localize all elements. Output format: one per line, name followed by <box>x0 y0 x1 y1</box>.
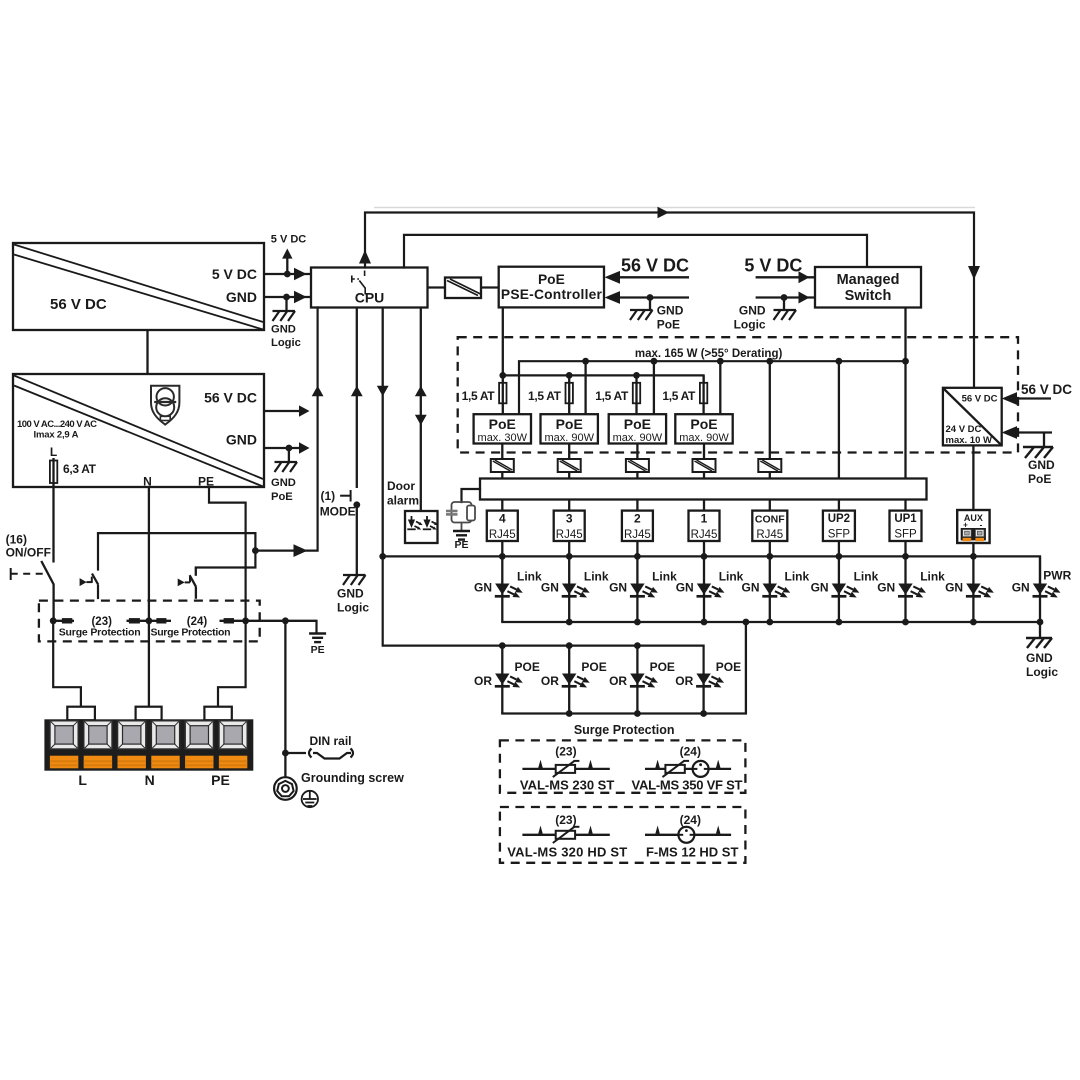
svg-text:Door: Door <box>387 479 415 493</box>
wire 5V stub up <box>286 257 288 274</box>
svg-text:Link: Link <box>584 570 609 584</box>
wire AUX to bus <box>972 543 974 556</box>
wire GND PoE into DC/DC <box>1016 431 1052 433</box>
LED POE2 <box>609 646 675 714</box>
surge bus line segments <box>53 620 74 622</box>
node B3 <box>633 372 640 379</box>
svg-text:PoE: PoE <box>624 416 651 432</box>
wire bar-RJ45#4 <box>501 500 503 511</box>
svg-text:GND: GND <box>271 324 296 336</box>
PoE module 2 (max.90W) <box>541 414 598 443</box>
svg-text:PoE: PoE <box>657 318 680 332</box>
svg-text:Logic: Logic <box>1026 665 1058 679</box>
svg-text:GN: GN <box>742 581 760 595</box>
svg-text:GN: GN <box>541 581 559 595</box>
svg-text:POE: POE <box>650 660 675 674</box>
svg-text:ON/OFF: ON/OFF <box>6 546 51 560</box>
svg-text:VAL-MS 230 ST: VAL-MS 230 ST <box>520 778 614 793</box>
svg-text:F-MS 12 HD ST: F-MS 12 HD ST <box>646 845 739 860</box>
svg-text:POE: POE <box>716 660 741 674</box>
svg-text:56 V DC: 56 V DC <box>1021 382 1072 397</box>
svg-text:2: 2 <box>634 512 641 526</box>
node A5 <box>766 358 773 365</box>
svg-text:56 V DC: 56 V DC <box>204 390 257 406</box>
svg-text:Link: Link <box>719 570 744 584</box>
fuse F2 1,5AT <box>502 375 504 414</box>
svg-text:UP2: UP2 <box>828 513 850 525</box>
wire UP1 <box>904 361 906 478</box>
node M7 <box>836 619 843 626</box>
node PE-surge <box>242 617 249 624</box>
wire GND to CPU <box>264 296 311 298</box>
wire MODE to gnd <box>356 505 358 575</box>
svg-text:Logic: Logic <box>271 337 301 349</box>
svg-text:Link: Link <box>652 570 677 584</box>
svg-text:(16): (16) <box>6 533 27 547</box>
svg-text:CPU: CPU <box>355 290 385 306</box>
svg-text:GND: GND <box>1028 458 1055 472</box>
power supply PS1 box <box>13 243 264 330</box>
svg-text:N: N <box>145 772 155 788</box>
POE top bus <box>502 646 703 674</box>
node L7 <box>902 553 909 560</box>
Link LED top bus <box>383 556 1040 583</box>
svg-text:Link: Link <box>920 570 945 584</box>
switch S1 ON/OFF blade <box>41 561 53 584</box>
wire PoE4 right <box>719 361 721 414</box>
wire bar-CONF <box>769 500 771 511</box>
svg-text:max. 10 W: max. 10 W <box>946 435 992 446</box>
wire CPU to isolator <box>428 286 446 288</box>
Managed Switch box U4 <box>815 267 921 308</box>
svg-text:GND: GND <box>337 587 364 601</box>
svg-text:SFP: SFP <box>828 529 851 541</box>
node interlock <box>252 547 259 554</box>
svg-text:GN: GN <box>676 581 694 595</box>
svg-text:POE: POE <box>581 660 606 674</box>
node M4 <box>701 619 708 626</box>
LED Link3 <box>541 556 609 622</box>
svg-text:Switch: Switch <box>845 288 892 304</box>
svg-text:GN: GN <box>811 581 829 595</box>
svg-text:Imax 2,9 A: Imax 2,9 A <box>34 430 79 441</box>
svg-text:L: L <box>50 445 57 459</box>
svg-text:RJ45: RJ45 <box>756 529 783 541</box>
wire GND PoE stub <box>288 448 290 462</box>
node M3 <box>634 619 641 626</box>
PS2 transformer icon <box>151 386 179 425</box>
node GND tap <box>283 294 290 301</box>
wire 5V into MS <box>756 276 815 278</box>
wire trunk1 to ON/OFF sense <box>255 308 317 551</box>
svg-text:PSE-Controller: PSE-Controller <box>501 287 603 302</box>
svg-text:alarm: alarm <box>387 494 419 508</box>
node bus-start <box>379 553 386 560</box>
PoE module 4 (max.90W) <box>675 414 732 443</box>
svg-text:GN: GN <box>877 581 895 595</box>
svg-text:PE: PE <box>198 475 214 489</box>
svg-text:N: N <box>143 475 152 489</box>
node GND Logic tap <box>781 294 788 301</box>
svg-text:OR: OR <box>675 674 693 688</box>
node P2 <box>566 642 573 649</box>
svg-text:PE: PE <box>211 772 230 788</box>
wire bar-RJ45#2 <box>636 500 638 511</box>
svg-text:5 V DC: 5 V DC <box>271 234 307 246</box>
node GND PoE tap <box>286 445 293 452</box>
breaker B1 (N) <box>80 533 99 599</box>
svg-text:Surge Protection: Surge Protection <box>151 626 231 638</box>
transformer T3 <box>626 459 649 472</box>
wire PS1-PS2 connector <box>146 330 148 374</box>
svg-text:100 V AC...240 V AC: 100 V AC...240 V AC <box>17 419 97 430</box>
node Q2 <box>566 710 573 717</box>
svg-text:(1): (1) <box>321 489 336 503</box>
wire PE to tab <box>218 621 246 707</box>
svg-text:MODE: MODE <box>320 505 356 519</box>
svg-text:(24): (24) <box>680 813 701 827</box>
LED POE4 <box>474 646 540 714</box>
wire L from PS2 <box>52 487 54 563</box>
RC network to PE <box>446 502 475 530</box>
svg-text:max. 30W: max. 30W <box>478 432 528 444</box>
wire GND stub down <box>285 297 287 311</box>
svg-text:OR: OR <box>474 674 492 688</box>
wire 5V to CPU <box>264 273 311 275</box>
wire 56V into PSE <box>619 276 689 278</box>
svg-text:Link: Link <box>785 570 810 584</box>
varistor blocks <box>62 618 72 623</box>
svg-text:1,5 AT: 1,5 AT <box>662 389 696 403</box>
svg-text:PE: PE <box>311 644 325 656</box>
transformer T4 <box>693 459 716 472</box>
wire PoE3 to iso <box>636 444 638 460</box>
LED PWR <box>1012 556 1072 622</box>
power supply PS2 box <box>13 374 264 487</box>
legend box 2 <box>500 807 746 863</box>
terminal body <box>44 719 253 770</box>
svg-text:DIN rail: DIN rail <box>310 734 352 748</box>
node Q4 <box>700 710 707 717</box>
node M5 <box>743 619 750 626</box>
LED LinkU2 <box>811 556 879 622</box>
svg-text:(24): (24) <box>680 745 701 759</box>
svg-text:3: 3 <box>566 512 573 526</box>
wire 56V into DC/DC <box>1016 397 1051 399</box>
wire trunk4 to door alarm <box>420 308 422 512</box>
tab L <box>67 707 95 721</box>
svg-text:SFP: SFP <box>894 529 917 541</box>
svg-text:GN: GN <box>609 581 627 595</box>
svg-text:GND: GND <box>739 304 766 318</box>
svg-text:Link: Link <box>854 570 879 584</box>
port CONF RJ45 <box>752 511 787 541</box>
node M6 <box>766 619 773 626</box>
wire trunk3 down <box>382 308 384 557</box>
node screw tap <box>282 617 289 624</box>
svg-text:max. 90W: max. 90W <box>613 432 663 444</box>
node L5 <box>766 553 773 560</box>
node P1 <box>499 642 506 649</box>
svg-text:PWR: PWR <box>1043 568 1071 582</box>
DIN rail symbol <box>309 749 353 759</box>
node P3 <box>634 642 641 649</box>
PoE module 1 (max.30W) <box>474 414 531 443</box>
node A3 <box>651 358 658 365</box>
CPU internal switch <box>352 271 366 295</box>
svg-text:RJ45: RJ45 <box>624 529 651 541</box>
svg-text:RJ45: RJ45 <box>489 529 516 541</box>
port 4 RJ45 <box>487 511 518 541</box>
svg-text:GN: GN <box>474 581 492 595</box>
breaker B2 (PE) <box>178 568 196 599</box>
svg-text:24 V DC: 24 V DC <box>946 424 982 435</box>
svg-text:max. 165 W (>55° Derating): max. 165 W (>55° Derating) <box>635 348 783 360</box>
PS1 diagonal band <box>14 245 263 323</box>
Link LED bottom bus <box>502 621 1040 623</box>
arrow down to DC/DC <box>968 266 980 280</box>
fuse F4 1,5AT <box>635 375 637 414</box>
node A4 <box>717 358 724 365</box>
wire 56V out arrow <box>264 410 300 412</box>
wire PE tap from bar <box>462 489 481 502</box>
svg-text:5 V DC: 5 V DC <box>212 266 257 282</box>
wire N down <box>148 487 150 707</box>
wire trunk to POE bus <box>383 556 503 645</box>
wire GND Logic into MS <box>756 296 815 298</box>
iso tails <box>501 472 503 479</box>
wire DIN <box>285 752 306 754</box>
tab N <box>136 707 162 721</box>
svg-text:GN: GN <box>1012 581 1030 595</box>
svg-text:L: L <box>78 772 87 788</box>
svg-text:Managed: Managed <box>837 272 900 288</box>
PoE module 3 (max.90W) <box>609 414 666 443</box>
node A6 <box>836 358 843 365</box>
wire link-bus to POE bus right <box>745 622 747 714</box>
node DIN <box>282 750 289 757</box>
LED Link4 <box>474 556 542 622</box>
node M2 <box>566 619 573 626</box>
tab PE <box>204 707 231 721</box>
node L2 <box>566 553 573 560</box>
svg-text:RJ45: RJ45 <box>556 529 583 541</box>
wire DC/DC to AUX <box>972 445 974 510</box>
LED Link2 <box>609 556 677 622</box>
svg-text:PoE: PoE <box>556 416 583 432</box>
svg-text:GN: GN <box>945 581 963 595</box>
wire bar-UP2 <box>838 500 840 511</box>
wire PoE2 right <box>584 361 586 414</box>
port 2 RJ45 <box>622 511 653 541</box>
transformer T1 <box>491 459 514 472</box>
LED LinkC <box>742 556 810 622</box>
svg-text:RJ45: RJ45 <box>691 529 718 541</box>
arrow on sense wire <box>294 544 308 557</box>
svg-text:Logic: Logic <box>734 318 766 332</box>
isolator U2 <box>445 278 481 299</box>
LED AUX <box>945 556 994 622</box>
door alarm LEDs <box>407 516 438 530</box>
wire bar-UP1 <box>904 500 906 511</box>
ground GND PoE (PSE) <box>630 310 653 320</box>
svg-text:1: 1 <box>701 512 708 526</box>
node L4 <box>701 553 708 560</box>
port 1 RJ45 <box>689 511 720 541</box>
earth ground PE (bar) <box>453 531 470 540</box>
transformer T5 <box>758 459 781 472</box>
ground GND Logic (PS1) <box>273 311 296 321</box>
svg-text:max. 90W: max. 90W <box>544 432 594 444</box>
node M8 <box>902 619 909 626</box>
wire PoE2 to iso <box>568 444 570 460</box>
wire MS down to port bus <box>904 308 906 362</box>
svg-text:1,5 AT: 1,5 AT <box>462 389 496 403</box>
node B2 <box>566 372 573 379</box>
svg-text:VAL-MS 320 HD ST: VAL-MS 320 HD ST <box>507 845 627 860</box>
wire bar-RJ45#3 <box>568 500 570 511</box>
legend box 1 <box>500 740 746 792</box>
node L1 <box>499 553 506 560</box>
ground GND PoE (PS2) <box>275 462 298 472</box>
svg-text:UP1: UP1 <box>894 513 917 525</box>
node L6 <box>836 553 843 560</box>
svg-text:(23): (23) <box>555 745 576 759</box>
transformer T2 <box>558 459 581 472</box>
node A7 <box>902 358 909 365</box>
svg-text:56 V DC: 56 V DC <box>962 394 998 405</box>
earth-in-circle icon <box>302 791 318 807</box>
svg-text:GND: GND <box>657 304 684 318</box>
node B1 <box>499 372 506 379</box>
door alarm box <box>405 511 438 543</box>
node L-surge <box>50 617 57 624</box>
wire isolator to PSE <box>481 286 499 288</box>
svg-text:Surge Protection: Surge Protection <box>59 626 141 638</box>
ground GND PoE (DC/DC) <box>1023 447 1053 458</box>
node N-surge <box>146 617 153 624</box>
wire PSE down to fuse bus <box>502 307 504 375</box>
svg-text:5 V DC: 5 V DC <box>744 256 802 276</box>
node MODE <box>353 501 360 508</box>
svg-text:PoE: PoE <box>690 416 717 432</box>
bus line A (return) <box>519 361 906 414</box>
DC/DC box U5 <box>943 388 1002 446</box>
wire GND stub down <box>1043 433 1045 447</box>
svg-text:Grounding screw: Grounding screw <box>301 771 404 785</box>
fuse F5 1,5AT <box>702 375 704 414</box>
PSE controller box U3 <box>499 267 604 308</box>
arrow on top rail <box>658 207 670 219</box>
node 5V tap <box>284 271 291 278</box>
svg-text:GND: GND <box>226 432 257 448</box>
svg-text:GND: GND <box>226 289 257 305</box>
wire GND PoE into PSE <box>619 296 689 298</box>
node L8 <box>970 553 977 560</box>
port box stubs to bus <box>502 541 905 556</box>
POE bottom bus <box>502 712 746 714</box>
wire UP2 <box>838 361 840 478</box>
wire interlock top <box>98 533 255 567</box>
actuator dashes <box>11 568 46 580</box>
node GND PoE tap <box>647 294 654 301</box>
svg-text:6,3 AT: 6,3 AT <box>63 462 97 476</box>
wire PE down <box>209 487 246 621</box>
node L3 <box>634 553 641 560</box>
svg-text:PoE: PoE <box>489 416 516 432</box>
ground GND Logic (MODE) <box>343 575 366 585</box>
wire PoE3 right <box>653 361 655 414</box>
svg-text:POE: POE <box>515 660 540 674</box>
svg-text:CONF: CONF <box>755 514 785 526</box>
node M10 <box>1037 619 1044 626</box>
svg-text:PoE: PoE <box>1028 472 1051 486</box>
svg-text:4: 4 <box>499 512 506 526</box>
node A2 <box>582 358 589 365</box>
port 3 RJ45 <box>554 511 585 541</box>
bus line B (56V feed) <box>503 375 704 382</box>
wire GND out arrow <box>264 447 300 449</box>
svg-text:PoE: PoE <box>538 272 565 287</box>
wire PoE1 to iso <box>501 444 503 460</box>
svg-text:56 V DC: 56 V DC <box>50 296 107 313</box>
svg-text:PoE: PoE <box>271 491 293 503</box>
faint scan line top <box>374 207 975 209</box>
svg-text:Link: Link <box>517 570 542 584</box>
fuse F3 1,5AT <box>568 375 570 414</box>
LED POE1 <box>675 660 741 714</box>
svg-text:1,5 AT: 1,5 AT <box>528 389 562 403</box>
LED Link1 <box>676 556 744 622</box>
wire CONF to iso <box>769 361 771 459</box>
LED LinkU1 <box>877 556 945 622</box>
svg-text:PE: PE <box>454 539 468 551</box>
wire L to tab <box>53 621 81 707</box>
PS2 diagonal band <box>14 376 263 480</box>
port UP1 SFP <box>890 511 922 541</box>
node M9 <box>970 619 977 626</box>
wire T2 CPU to Managed Switch <box>404 235 867 268</box>
port UP2 SFP <box>823 511 855 541</box>
svg-text:Surge Protection: Surge Protection <box>574 723 675 737</box>
wire trunk2 to MODE <box>356 308 358 489</box>
svg-text:1,5 AT: 1,5 AT <box>595 389 629 403</box>
wire PoE4 to iso <box>703 444 705 460</box>
ground GND Logic (MS) <box>774 310 797 320</box>
svg-text:OR: OR <box>541 674 559 688</box>
terminal cells <box>50 721 78 769</box>
svg-text:Logic: Logic <box>337 601 369 615</box>
svg-text:GND: GND <box>271 477 296 489</box>
earth PE right <box>315 621 317 632</box>
svg-text:OR: OR <box>609 674 627 688</box>
svg-text:56 V DC: 56 V DC <box>621 256 689 276</box>
wire bar-RJ45#1 <box>703 500 705 511</box>
CPU box U1 <box>311 268 428 308</box>
grounding screw icon <box>274 777 297 800</box>
LED POE3 <box>541 646 607 714</box>
ground GND Logic (LED) <box>1026 638 1052 648</box>
node Q3 <box>634 710 641 717</box>
svg-text:max. 90W: max. 90W <box>679 432 729 444</box>
svg-text:VAL-MS 350 VF ST: VAL-MS 350 VF ST <box>632 778 743 793</box>
fuse F1 6,3 AT on L <box>52 458 54 487</box>
wire T1 CPU to top rail <box>365 213 974 388</box>
wire to GND Logic <box>1039 622 1041 637</box>
svg-text:(23): (23) <box>555 813 576 827</box>
svg-text:GND: GND <box>1026 651 1053 665</box>
